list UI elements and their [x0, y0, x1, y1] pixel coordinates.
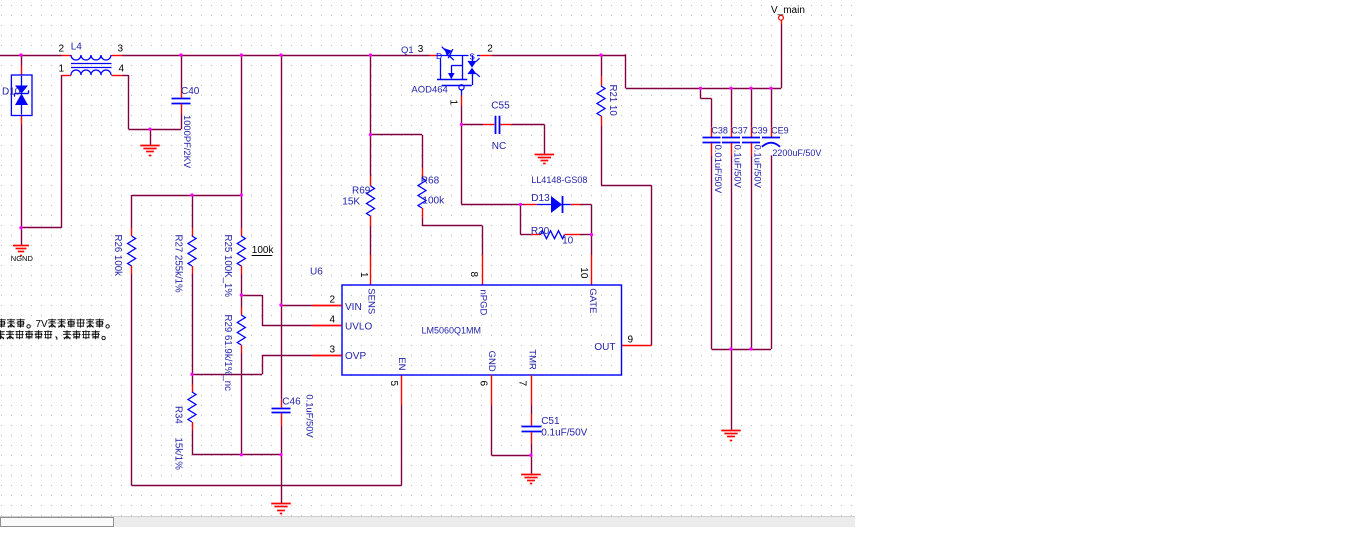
svg-text:10: 10 — [562, 235, 574, 246]
svg-text:1: 1 — [448, 100, 459, 106]
svg-text:R20: R20 — [531, 226, 550, 237]
svg-text:15k/1%: 15k/1% — [173, 438, 184, 471]
svg-text:Q1: Q1 — [401, 45, 414, 56]
svg-text:1: 1 — [58, 63, 64, 74]
svg-text:OUT: OUT — [594, 342, 615, 353]
svg-text:NC: NC — [492, 141, 506, 152]
svg-text:D13: D13 — [531, 193, 550, 204]
svg-text:2: 2 — [58, 44, 64, 55]
svg-text:LM5060Q1MM: LM5060Q1MM — [422, 325, 482, 335]
svg-text:0.1uF/50V: 0.1uF/50V — [752, 145, 763, 189]
svg-text:8: 8 — [468, 272, 479, 278]
svg-text:100k: 100k — [422, 195, 445, 206]
svg-text:R29 61.9k/1%_nc: R29 61.9k/1%_nc — [222, 315, 233, 392]
svg-text:R68: R68 — [421, 176, 440, 187]
svg-text:10: 10 — [578, 267, 589, 279]
svg-text:GND: GND — [486, 351, 497, 372]
svg-text:V_main: V_main — [771, 5, 805, 16]
svg-text:R69: R69 — [352, 186, 371, 197]
svg-text:R26 100k: R26 100k — [112, 235, 123, 277]
svg-text:D: D — [436, 51, 442, 61]
svg-text:OVP: OVP — [345, 351, 366, 362]
svg-text:C38: C38 — [711, 126, 728, 136]
svg-text:3: 3 — [329, 345, 335, 356]
svg-text:EN: EN — [396, 357, 407, 370]
svg-text:NGND: NGND — [11, 254, 34, 263]
svg-text:S: S — [469, 52, 475, 62]
svg-text:SENS: SENS — [365, 288, 376, 314]
svg-text:C37: C37 — [731, 126, 748, 136]
svg-text:R25 100K_1%: R25 100K_1% — [222, 235, 233, 298]
svg-text:5: 5 — [388, 381, 399, 387]
svg-text:R21 10: R21 10 — [607, 85, 618, 117]
svg-text:9: 9 — [628, 335, 634, 346]
svg-text:AOD464: AOD464 — [411, 85, 447, 96]
svg-text:UVLO: UVLO — [345, 322, 372, 333]
svg-text:C46: C46 — [282, 396, 301, 407]
svg-text:R34: R34 — [173, 406, 184, 424]
svg-text:3: 3 — [418, 44, 424, 55]
svg-text:4: 4 — [329, 314, 335, 325]
svg-text:C51: C51 — [541, 416, 560, 427]
svg-text:TMR: TMR — [527, 349, 538, 370]
svg-text:3: 3 — [118, 44, 124, 55]
svg-text:1000PF/2KV: 1000PF/2KV — [182, 115, 193, 169]
svg-text:GATE: GATE — [587, 288, 598, 313]
svg-text:0.1uF/50V: 0.1uF/50V — [305, 394, 316, 438]
svg-text:C40: C40 — [181, 86, 200, 97]
svg-text:U6: U6 — [310, 267, 323, 278]
svg-text:R27 255k/1%: R27 255k/1% — [173, 235, 184, 294]
svg-text:C55: C55 — [491, 100, 510, 111]
svg-text:D10: D10 — [2, 87, 21, 98]
svg-text:L4: L4 — [71, 41, 83, 52]
svg-text:0.1uF/50V: 0.1uF/50V — [541, 427, 587, 438]
svg-text:15K: 15K — [342, 196, 360, 207]
svg-text:1: 1 — [358, 272, 369, 278]
svg-text:VIN: VIN — [345, 302, 362, 313]
svg-text:0.01uF/50V: 0.01uF/50V — [713, 145, 724, 194]
svg-text:6: 6 — [477, 381, 488, 387]
svg-text:CE9: CE9 — [771, 126, 789, 136]
svg-text:2: 2 — [487, 44, 493, 55]
svg-text:4: 4 — [119, 63, 125, 74]
svg-text:7V: 7V — [36, 319, 49, 330]
svg-text:C39: C39 — [751, 126, 768, 136]
svg-text:2200uF/50V: 2200uF/50V — [772, 148, 821, 158]
svg-text:7: 7 — [516, 381, 527, 387]
svg-text:nPGD: nPGD — [478, 290, 489, 316]
svg-text:100k: 100k — [252, 245, 275, 256]
svg-text:2: 2 — [329, 294, 335, 305]
svg-text:0.1uF/50V: 0.1uF/50V — [733, 145, 744, 189]
svg-text:LL4148-GS08: LL4148-GS08 — [531, 175, 587, 185]
